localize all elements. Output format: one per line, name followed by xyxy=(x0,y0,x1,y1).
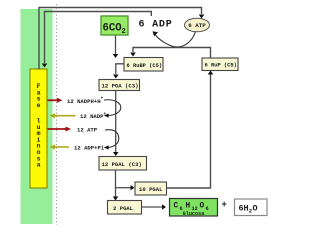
box glucose C6H12O6 xyxy=(170,199,218,217)
wire ADP return to light phase xyxy=(42,12,152,68)
wire 10 PGAL to RuP xyxy=(167,71,214,189)
svg-text:+: + xyxy=(222,200,227,210)
box Fase luminosa xyxy=(30,69,47,188)
box 6H2O xyxy=(235,199,268,216)
svg-text:+: + xyxy=(101,97,104,102)
box 6 RuBP (C5) xyxy=(124,58,163,72)
svg-text:H: H xyxy=(186,203,191,211)
box 12 PGAL (C3) xyxy=(99,157,147,171)
box 10 PGAL xyxy=(135,182,167,195)
svg-text:10 PGAL: 10 PGAL xyxy=(139,186,163,193)
plus sign xyxy=(222,200,227,210)
svg-text:12 ATP: 12 ATP xyxy=(77,127,98,134)
svg-text:12 PGAL (C3): 12 PGAL (C3) xyxy=(102,161,142,168)
svg-text:6 ADP: 6 ADP xyxy=(139,19,173,30)
svg-text:12 NADP: 12 NADP xyxy=(80,113,104,120)
arrow red NADPH input xyxy=(48,98,63,103)
label 12 NADP+ xyxy=(80,112,107,120)
wire CO2 down xyxy=(113,36,119,59)
ellipse 6 ATP xyxy=(185,18,210,32)
wire RuP to RuBP xyxy=(130,48,210,58)
svg-text:6H: 6H xyxy=(239,203,249,213)
label 12 ADP+Pi xyxy=(74,145,105,152)
label 12 NADPH+H+ xyxy=(67,97,104,105)
dashed divider line xyxy=(56,4,58,225)
wire branch to 10 PGAL xyxy=(116,185,135,190)
svg-text:2 PGAL: 2 PGAL xyxy=(113,205,134,212)
svg-text:a: a xyxy=(37,162,41,169)
svg-text:O: O xyxy=(200,203,205,211)
wire PGA to PGAL xyxy=(113,91,119,157)
svg-text:Glucosa: Glucosa xyxy=(183,211,205,217)
arc NADPH to NADP xyxy=(104,100,121,118)
svg-text:e: e xyxy=(37,102,41,109)
label 6 ADP xyxy=(139,19,173,30)
svg-text:12 ADP+Pi: 12 ADP+Pi xyxy=(74,145,105,152)
box 6 RuP (C5) xyxy=(202,58,238,71)
svg-text:+: + xyxy=(104,112,107,117)
wire RuBP to PGA xyxy=(113,64,124,79)
box 6CO2 xyxy=(101,16,128,36)
svg-text:12 PGA (C3): 12 PGA (C3) xyxy=(102,83,139,90)
svg-text:C: C xyxy=(174,203,179,211)
label 12 ATP xyxy=(77,127,98,134)
svg-text:O: O xyxy=(253,203,258,213)
arrow olive ADP+Pi return xyxy=(50,145,70,150)
arc ATP to ADP+Pi xyxy=(104,130,119,150)
wire PGAL down to 2 PGAL xyxy=(113,170,119,201)
svg-text:6 ATP: 6 ATP xyxy=(188,22,206,29)
svg-text:12 NADPH+H: 12 NADPH+H xyxy=(67,98,101,105)
wire 2 PGAL to glucose xyxy=(142,204,167,209)
wire light phase to ATP xyxy=(39,8,204,70)
svg-text:6 RuBP (C5): 6 RuBP (C5) xyxy=(127,63,163,69)
curved arrow ATP to ADP xyxy=(153,31,196,47)
svg-text:6CO: 6CO xyxy=(103,23,122,35)
light-phase green strip xyxy=(21,9,53,224)
svg-text:6 RuP (C5): 6 RuP (C5) xyxy=(205,62,237,68)
svg-text:6: 6 xyxy=(206,206,209,212)
arrow red ATP input xyxy=(48,127,72,132)
svg-text:2: 2 xyxy=(122,28,126,36)
arrow olive NADP return xyxy=(50,113,76,118)
box 12 PGA (C3) xyxy=(99,80,140,91)
box 2 PGAL xyxy=(108,201,142,215)
